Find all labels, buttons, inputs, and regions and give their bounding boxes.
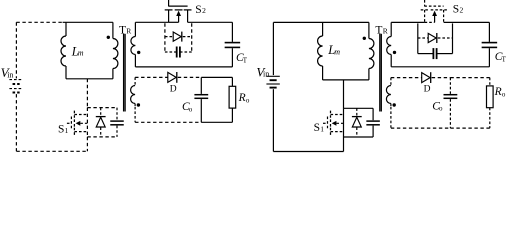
svg-text:D: D [170, 84, 177, 94]
polarity dot primary (left) [107, 36, 110, 39]
transformer TR core (left) [123, 34, 125, 112]
inductor Lm (right) [322, 22, 324, 36]
wire lower winding bottom lead (right) [390, 107, 392, 128]
transformer TR primary winding (left) [112, 22, 114, 38]
polarity dot secondary upper (left) [137, 51, 140, 54]
wire S2 loop top rail left (right) [391, 21, 424, 23]
wire S2 loop top rail left (left) [135, 21, 168, 23]
svg-text:o: o [189, 105, 193, 113]
svg-text:D: D [424, 85, 431, 95]
wire input top-left vertical (right) [272, 22, 274, 75]
svg-text:o: o [502, 90, 506, 98]
resistor Ro load (left) [231, 77, 233, 86]
svg-text:T: T [502, 56, 507, 64]
wire input bottom rail (left) [16, 150, 87, 152]
wire output top rail right of D (right) [432, 77, 451, 79]
wire S1 snubber box bottom edge (left) [87, 136, 117, 138]
capacitor Co output (left) [200, 77, 202, 94]
svg-text:R: R [383, 27, 388, 36]
inductor Lm (left) [65, 22, 67, 36]
capacitor Co output (right) [449, 78, 451, 94]
parasitic capacitor of S1 (right) [372, 108, 374, 120]
svg-text:T: T [243, 57, 248, 65]
parasitic capacitor of S1 (left) [116, 108, 118, 121]
wire input top-left vertical (left) [15, 22, 17, 78]
wire S2 loop top rail right (right) [444, 21, 490, 23]
body diode of S2 (left) [165, 36, 173, 38]
wire input bottom-left vertical (left) [15, 94, 17, 151]
svg-text:o: o [439, 105, 443, 113]
transformer TR core (right) [379, 34, 381, 112]
svg-text:R: R [494, 86, 502, 98]
transformer TR primary winding (right) [368, 22, 370, 38]
diode D output rectifier (right) [422, 73, 430, 83]
wire S2 snubber box left edge (left) [164, 23, 166, 52]
wire input bottom-left vertical (right) [272, 89, 274, 151]
svg-text:R: R [126, 27, 131, 36]
svg-text:1: 1 [320, 124, 324, 133]
polarity dot primary (right) [363, 37, 366, 40]
wire S2 loop top rail right (left) [188, 21, 233, 23]
wire output top rail right of D (left) [178, 76, 202, 78]
svg-text:m: m [334, 47, 340, 56]
svg-text:in: in [263, 70, 269, 79]
svg-text:S: S [453, 3, 459, 15]
svg-text:R: R [238, 92, 246, 104]
transformer TR secondary upper winding (right) [390, 22, 392, 36]
wire input top rail (right) [273, 21, 369, 23]
wire S1 snubber box bottom edge (right) [344, 136, 374, 138]
wire output bottom rail (left) [135, 121, 201, 123]
svg-text:2: 2 [202, 6, 206, 15]
wire S1 snubber box left edge (left) [86, 108, 88, 137]
switch S1 MOSFET (left) [67, 122, 72, 124]
wire output top rail (right) [391, 77, 422, 79]
wire S1 snubber box top edge (right) [344, 107, 374, 109]
svg-text:2: 2 [460, 6, 464, 15]
polarity dot secondary upper (right) [393, 51, 396, 54]
wire S1 drain drop (right) [343, 80, 345, 108]
wire S1 source drop (right) [343, 137, 345, 152]
capacitor CT clamp (right) [488, 22, 490, 42]
diode D output rectifier (left) [168, 72, 176, 82]
capacitor CT clamp (left) [231, 22, 233, 42]
body diode of S1 (left) [100, 108, 102, 117]
svg-text:S: S [58, 124, 64, 136]
wire lower winding bottom lead (left) [134, 107, 136, 123]
parasitic capacitor of S2 (right) [418, 53, 434, 55]
wire input bottom rail (right) [273, 151, 343, 153]
wire S1 drain drop (left) [86, 79, 88, 108]
svg-text:S: S [314, 122, 320, 134]
svg-text:m: m [78, 49, 84, 58]
wire S1 snubber box top edge (left) [87, 107, 117, 109]
wire S2 loop bottom rail (left) [135, 66, 232, 68]
wire S2 snubber box right edge (right) [452, 23, 454, 53]
switch S2 MOSFET (left) [168, 0, 170, 6]
wire output top rail (left) [135, 76, 168, 78]
wire input top rail (left) [16, 21, 62, 23]
wire S2 snubber box left edge (right) [417, 23, 419, 53]
svg-text:o: o [246, 96, 250, 104]
battery Vin (left) [9, 79, 22, 81]
wire S1 snubber box left edge (right) [343, 108, 345, 137]
wire S2 snubber box right edge (left) [191, 23, 193, 52]
polarity dot secondary lower (left) [137, 103, 140, 106]
polarity dot secondary lower (right) [393, 103, 396, 106]
wire Lm bottom rail (right) [323, 79, 369, 81]
battery Vin (right) [266, 75, 279, 77]
svg-text:in: in [7, 70, 13, 79]
body diode of S1 (right) [356, 108, 358, 116]
resistor Ro load (right) [489, 78, 491, 86]
wire S2 loop bottom rail (right) [391, 66, 489, 68]
switch S1 MOSFET (right) [323, 122, 328, 124]
wire output bottom rail (right) [391, 127, 451, 129]
body diode of S2 (right) [418, 37, 428, 39]
svg-text:S: S [195, 4, 201, 16]
wire S1 source drop (left) [86, 137, 88, 151]
switch S2 MOSFET (right) [424, 0, 426, 6]
transformer TR secondary lower winding (right) [390, 78, 392, 86]
transformer TR secondary upper winding (left) [134, 22, 136, 36]
wire output top rail to Ro (left) [201, 76, 232, 78]
wire output top rail to Ro (right) [450, 77, 489, 79]
svg-text:1: 1 [65, 126, 69, 135]
transformer TR secondary lower winding (left) [134, 77, 136, 85]
wire Lm bottom rail (left) [66, 78, 113, 80]
parasitic capacitor of S2 (left) [165, 51, 177, 53]
